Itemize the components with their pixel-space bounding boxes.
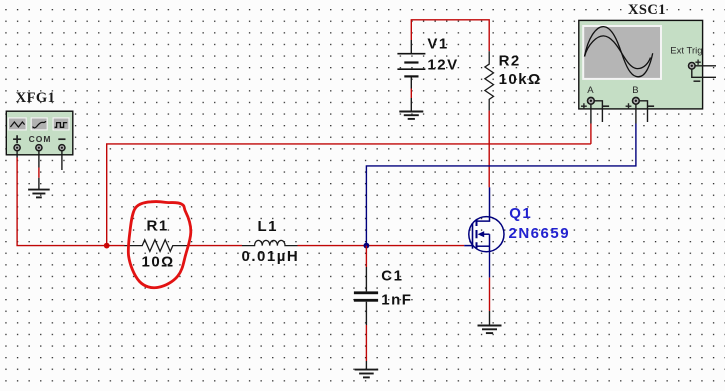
wire XSC1 A down <box>590 124 592 144</box>
scope trace small <box>585 36 651 69</box>
svg-text:R2: R2 <box>499 53 521 70</box>
pin XSC1 B lead <box>635 104 637 123</box>
svg-text:1nF: 1nF <box>381 291 412 308</box>
wire XFG1 COM to ground <box>38 168 40 178</box>
oscilloscope XSC1 label <box>628 2 666 18</box>
pin XFG1 plus lead <box>16 151 18 158</box>
wire node B to Q1 gate <box>366 245 464 247</box>
capacitor C1 <box>354 267 413 308</box>
red annotation circle around R1 <box>128 202 191 288</box>
svg-text:2N6659: 2N6659 <box>509 225 571 242</box>
ground under V1 <box>399 112 423 119</box>
wire XFG1 plus to node A <box>17 158 106 246</box>
pin XFG1 COM lead <box>38 151 40 168</box>
terminal XFG1 COM <box>36 145 42 151</box>
pin C1 bottom lead <box>365 302 367 325</box>
function generator XFG1 body <box>6 111 73 155</box>
ground under Q1 <box>478 326 502 334</box>
pin XFG1 minus stub <box>61 151 63 170</box>
wire node A to R1 <box>107 245 125 247</box>
ground under XFG1 <box>28 190 50 198</box>
transistor Q1 MOSFET <box>464 187 504 251</box>
pin XSC1 A lead <box>590 104 592 123</box>
svg-text:A: A <box>587 85 594 96</box>
terminal XSC1 Ext Trig <box>689 63 696 70</box>
pin XSC1 A minus stub <box>594 101 602 122</box>
wire R2 bottom to Q1 drain <box>488 111 490 188</box>
wire V1 top to R2 top <box>411 20 489 51</box>
pin Ext Trig plus stub <box>695 65 716 67</box>
inductor L1 <box>242 218 300 265</box>
pin Ext Trig minus stub <box>692 69 716 77</box>
pin ground lead under XFG1 <box>38 178 40 190</box>
svg-text:0.01µH: 0.01µH <box>242 248 300 265</box>
svg-text:10Ω: 10Ω <box>142 253 175 270</box>
svg-text:XFG1: XFG1 <box>16 90 55 106</box>
battery V1 <box>397 36 458 89</box>
svg-text:12V: 12V <box>427 57 458 74</box>
junction node A <box>104 243 110 249</box>
svg-text:Q1: Q1 <box>509 205 532 222</box>
pin ground lead under C1 <box>365 361 367 369</box>
wire XSC1 B to node B <box>366 124 636 246</box>
svg-text:Ext Trig: Ext Trig <box>670 45 702 56</box>
terminal XFG1 plus <box>14 145 20 151</box>
wire L1 to node B <box>298 245 367 247</box>
pin C1 top lead <box>365 267 367 291</box>
svg-text:C1: C1 <box>381 267 403 284</box>
pin ground lead under V1 <box>410 98 412 111</box>
function generator XFG1 label <box>16 90 55 106</box>
svg-text:COM: COM <box>29 134 52 144</box>
wire Q1 source down <box>489 252 491 278</box>
pin XSC1 B minus stub <box>639 101 647 122</box>
terminal XFG1 minus <box>59 145 65 151</box>
terminal XSC1 B <box>633 97 640 104</box>
pin ground lead under Q1 <box>489 311 491 325</box>
svg-text:V1: V1 <box>427 36 448 53</box>
svg-text:L1: L1 <box>258 218 279 235</box>
ground under C1 <box>355 370 379 378</box>
junction node B <box>364 243 370 249</box>
scope trace big <box>585 27 653 77</box>
svg-text:B: B <box>632 85 638 96</box>
svg-text:10kΩ: 10kΩ <box>499 71 542 88</box>
wire R1 to L1 <box>189 245 242 247</box>
wire node B down to C1 <box>365 246 367 267</box>
resistor R1 <box>125 218 190 271</box>
resistor R2 <box>485 51 542 110</box>
terminal XSC1 A <box>588 97 595 104</box>
svg-text:XSC1: XSC1 <box>628 2 666 18</box>
wire node A up to scope A <box>107 144 591 246</box>
svg-text:R1: R1 <box>147 218 169 235</box>
wire C1 to ground <box>365 325 367 361</box>
oscilloscope XSC1 body <box>579 20 716 109</box>
